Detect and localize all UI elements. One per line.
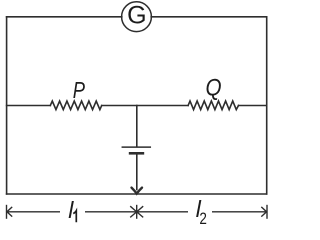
wire: cell to bottom <box>136 155 138 190</box>
svg-text:G: G <box>127 2 146 30</box>
dimension line: l2 right part <box>212 211 267 213</box>
wire: middle left segment <box>7 105 51 107</box>
dimension tick: center <box>136 205 138 219</box>
dimension line: l1 left part <box>7 211 60 213</box>
arrowhead: l1 left (points left) <box>7 207 12 217</box>
wire: middle right segment <box>239 105 267 107</box>
svg-text:2: 2 <box>199 210 207 226</box>
wire: galvanometer to top-right <box>151 16 267 18</box>
svg-text:l: l <box>68 197 74 223</box>
arrowhead: l1 right (points right into centre tick, barbs cross) <box>130 206 137 217</box>
dimension line: l1 right part <box>85 211 136 213</box>
wire: right edge <box>266 17 268 194</box>
wire: top-left to galvanometer <box>7 16 122 18</box>
wire: bottom edge <box>7 193 267 195</box>
cell: long positive plate <box>122 146 150 148</box>
cell: short negative plate <box>130 152 143 155</box>
arrowhead: l2 left (points left into centre tick, barbs cross) <box>137 206 144 217</box>
wire: middle center segment <box>102 105 188 107</box>
wire: left edge <box>6 17 8 194</box>
dimension line: l2 left part <box>137 211 188 213</box>
resistor P: zigzag <box>50 101 101 110</box>
resistor Q: zigzag <box>188 101 238 110</box>
arrowhead: current arrow down onto bottom wire <box>132 188 143 194</box>
wire: vertical to cell <box>136 106 138 147</box>
svg-text:Q: Q <box>205 74 221 101</box>
dimension tick: left <box>6 205 8 219</box>
arrowhead: l2 right (points right) <box>261 207 266 217</box>
galvanometer G: circle <box>122 2 152 32</box>
svg-text:P: P <box>73 78 85 104</box>
dimension tick: right <box>266 205 268 219</box>
